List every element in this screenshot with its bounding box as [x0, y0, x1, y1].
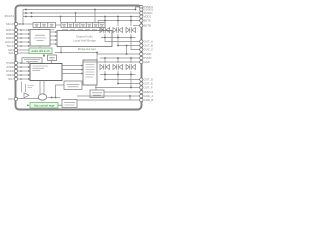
node J10 [60, 52, 62, 54]
pin VDD [140, 15, 143, 18]
wire bottom2 [77, 95, 140, 97]
node A outs [104, 37, 132, 47]
wire bottom tie [129, 96, 131, 100]
svg-text:BSTA: BSTA [144, 19, 151, 23]
wire SDA [18, 49, 30, 51]
pin GND_B [140, 60, 143, 63]
node J2 [25, 12, 27, 14]
arrowheads into U3 [81, 65, 83, 75]
wire A feeds [105, 17, 131, 27]
pin DVDD [14, 69, 17, 72]
node J9 [96, 52, 98, 54]
wire buffer feed1 [21, 82, 23, 93]
node J6 [75, 12, 77, 14]
block input ADC U2 [30, 64, 62, 81]
wire drop c [60, 17, 62, 23]
pin PVDD_B [140, 52, 143, 55]
svg-text:GND: GND [144, 60, 150, 64]
node osc1 [51, 97, 53, 99]
pin PVDDL [14, 61, 17, 64]
block reference [90, 90, 104, 98]
svg-text:OUT_C: OUT_C [144, 48, 153, 52]
pin LRCLK [14, 40, 17, 43]
wire B outs [95, 71, 140, 88]
wire mid rail [55, 53, 97, 61]
node B outs [104, 79, 132, 89]
pin GVDD [140, 8, 143, 11]
wire U4 down [39, 46, 41, 48]
wire OSC [18, 98, 39, 100]
nodes on input wires [20, 29, 22, 47]
svg-text:SCL: SCL [9, 51, 15, 55]
node J3 [31, 12, 33, 14]
wire clock up1 [39, 81, 41, 95]
wire SDIN2 [18, 33, 29, 35]
wire U2 out1 [62, 65, 83, 67]
wire clock up2 [43, 81, 45, 98]
pin GND3 [140, 98, 143, 101]
pin AVDD [14, 65, 17, 68]
wire U2 out3 [62, 73, 83, 75]
svg-text:BSTB: BSTB [144, 24, 151, 28]
arrow mclk [20, 23, 22, 25]
half bridge A2 [113, 27, 123, 33]
block load timing [22, 58, 42, 63]
block protection [64, 81, 82, 90]
wire VREG [18, 74, 31, 76]
pin SDIN2 [14, 32, 17, 35]
wire ser out4 [50, 43, 56, 45]
pin OUT_E [140, 82, 143, 85]
svg-text:Osc control regs: Osc control regs [34, 104, 55, 108]
half bridge B3 [126, 64, 136, 70]
node bottom [129, 95, 131, 97]
half bridge A1 [100, 27, 110, 33]
block osc control (green) [30, 103, 58, 109]
node A feeds [104, 16, 132, 22]
wire SCLK [18, 45, 29, 47]
arrowheads into U2 [28, 62, 30, 80]
pin VREG [14, 73, 17, 76]
block digital audio processor U1 [57, 31, 112, 47]
wire SDIN1 [18, 29, 29, 31]
wire DVDD [18, 70, 31, 72]
processing chain block row 2 [61, 23, 105, 28]
arrow ctrl down [43, 54, 45, 56]
pin OUT_F [140, 86, 143, 89]
block gain [48, 55, 57, 61]
node J8 [135, 9, 137, 11]
oscillator OSC1 [38, 94, 46, 100]
wire RESET [18, 78, 31, 80]
right pin labels [144, 5, 154, 102]
wire chain link [56, 24, 62, 26]
wire bottom1 [104, 91, 140, 93]
wire left riser [22, 10, 24, 25]
left pin labels [5, 14, 15, 101]
svg-text:GND_B: GND_B [144, 98, 154, 102]
wire bottom3 [77, 99, 140, 101]
chain under labels [34, 29, 104, 31]
node J7 [60, 16, 62, 18]
wire B source rail [100, 74, 136, 76]
processing chain block row 1 [33, 23, 56, 28]
wire osc up [56, 85, 65, 98]
wire PVDDL [18, 62, 31, 64]
wire U1 down [60, 47, 62, 53]
node J1 [25, 9, 27, 11]
node J5 [94, 9, 96, 11]
node J0 [22, 23, 24, 25]
pin GND2 [140, 94, 143, 97]
pin SDIN3 [14, 36, 17, 39]
pin OUT_B [140, 44, 143, 47]
half bridge B1 [100, 64, 110, 70]
label trim marks [28, 86, 35, 88]
wire SCL [18, 52, 30, 54]
wire gate feed [98, 20, 140, 22]
svg-text:MCLK: MCLK [6, 22, 14, 26]
pin RESET [14, 77, 17, 80]
node B feeds [104, 53, 132, 59]
pin SDIN1 [14, 28, 17, 31]
block PWM gate drive U3 [83, 60, 97, 85]
wire ser out3 [50, 39, 56, 41]
chain cell marks [35, 24, 104, 26]
pin BST_B [140, 24, 143, 27]
half bridge B2 [113, 64, 123, 70]
arrowheads into U4 [28, 29, 30, 47]
node J4 [31, 16, 33, 18]
wire SDIN3 [18, 37, 29, 39]
wire bus PVDD top [23, 7, 140, 10]
left pins group 1: serial audio inputs [14, 22, 17, 100]
pin OUT_A [140, 40, 143, 43]
pin PVDD_A [140, 5, 143, 8]
pin SCL [14, 51, 17, 54]
arrow into green2 [27, 104, 29, 106]
svg-text:OUT_F: OUT_F [144, 86, 153, 90]
svg-text:OSC: OSC [8, 97, 14, 101]
svg-text:RST: RST [8, 77, 14, 81]
node osc2 [55, 97, 57, 99]
pin SDA [14, 48, 17, 51]
wire drop d [94, 10, 96, 23]
wire LRCLK [18, 41, 29, 43]
block I2C control (green) [29, 48, 52, 54]
svg-text:MCLK1: MCLK1 [5, 14, 15, 18]
block serial input U4 [30, 30, 50, 47]
buffer amp [24, 93, 29, 98]
wire gain down [51, 61, 53, 64]
wire MCLK [18, 23, 34, 25]
wire green2 to thermal [58, 104, 62, 106]
node B rail [104, 74, 132, 76]
wire bus GVDD [23, 12, 140, 14]
pin PVDD_C [140, 56, 143, 59]
wire A outs [105, 26, 140, 50]
wire U2 out2 [62, 69, 83, 71]
pin AVDD2 [140, 11, 143, 14]
block thermal shutdown [62, 100, 77, 108]
pin SCLK [14, 44, 17, 47]
pin OSC [14, 97, 17, 100]
IC boundary frame [16, 6, 142, 110]
wire osc out [48, 97, 61, 99]
pin MCLK [14, 22, 17, 25]
pin BST_A [140, 19, 143, 22]
wire pwm to vref [95, 85, 97, 90]
svg-text:Bridge-tied load: Bridge-tied load [78, 48, 96, 51]
wire AVDD [18, 66, 31, 68]
wire ser out2 [50, 35, 56, 37]
wire source rail [101, 37, 136, 39]
half bridge A3 [126, 27, 136, 33]
svg-text:Audio I2S In ch: Audio I2S In ch [31, 49, 50, 53]
wire buffer feed2 [25, 84, 27, 92]
wire bus AVDD [23, 16, 140, 18]
arrowheads into U1 [55, 31, 57, 45]
wire drop b [75, 13, 77, 23]
wire B feed rails [83, 54, 140, 63]
pin OUT_D [140, 78, 143, 81]
wire bst tie [126, 46, 128, 55]
nodes on analog wires [20, 62, 22, 80]
left input wires [18, 24, 56, 99]
wire ser out1 [50, 31, 56, 33]
right pins [140, 5, 143, 101]
pin OUT_C [140, 48, 143, 51]
pin VREG2 [140, 90, 143, 93]
svg-text:Local Half Bridge: Local Half Bridge [73, 39, 96, 43]
